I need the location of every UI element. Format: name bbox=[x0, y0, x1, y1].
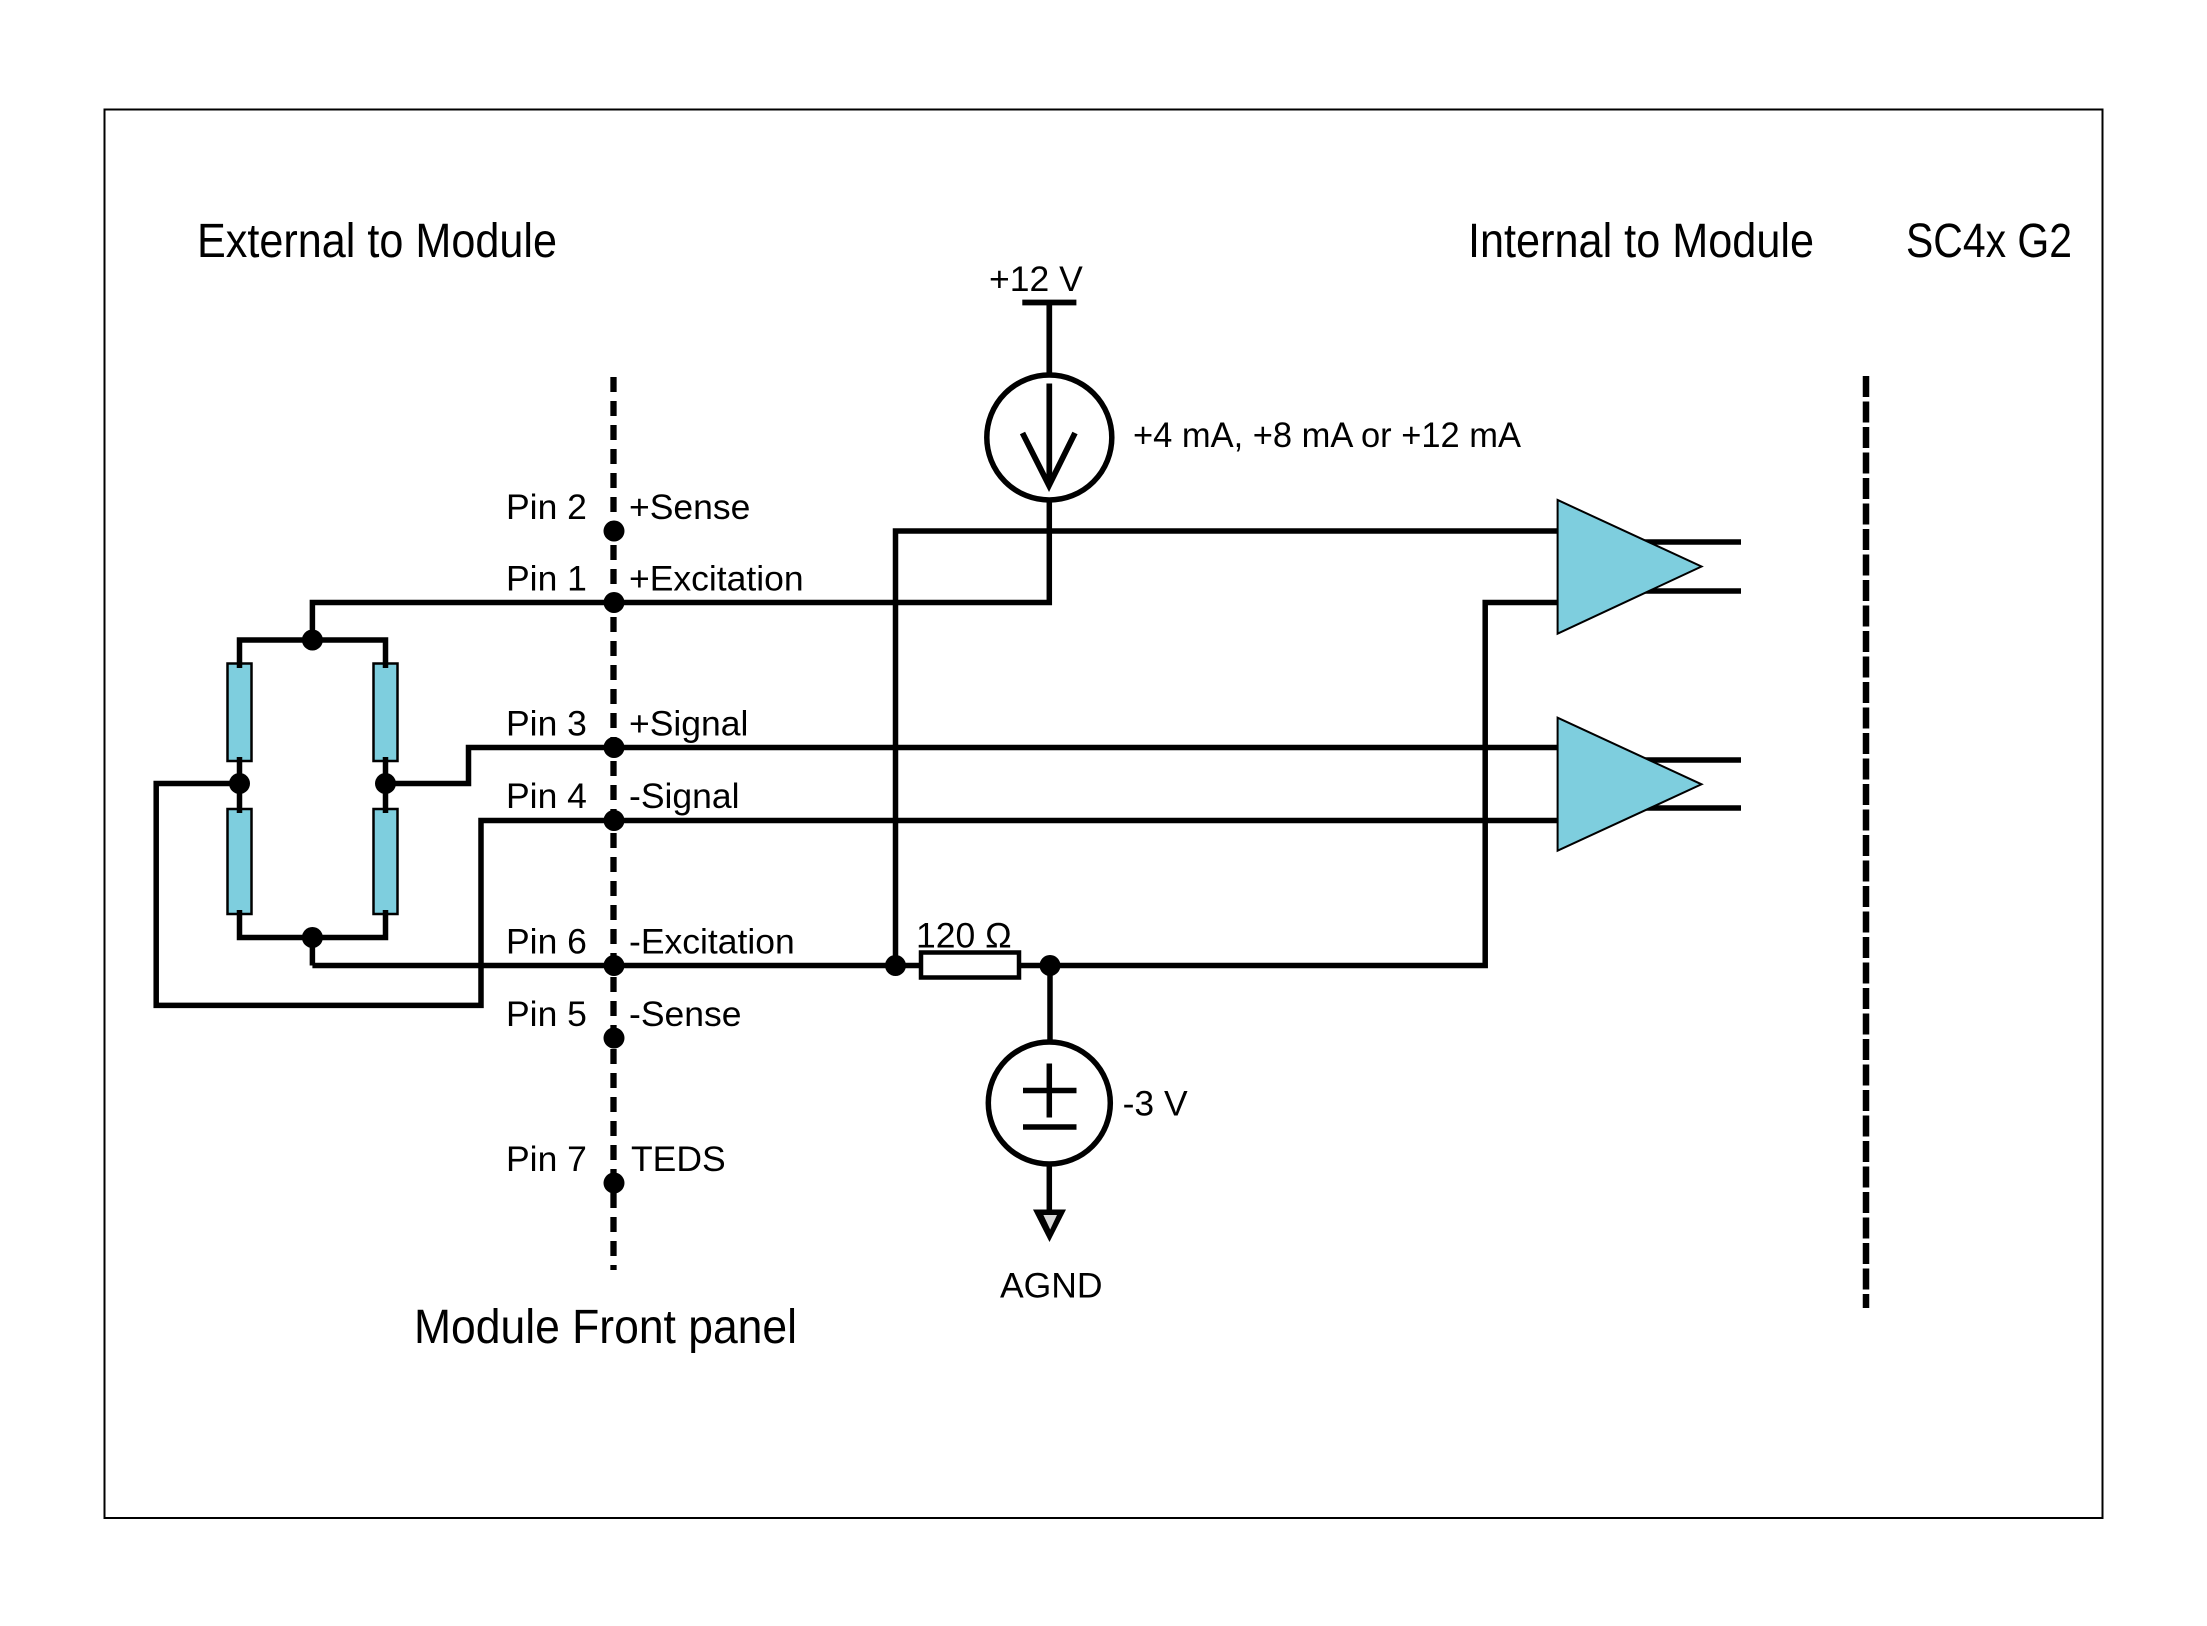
svg-text:Pin 1: Pin 1 bbox=[506, 559, 587, 599]
svg-text:120 Ω: 120 Ω bbox=[916, 915, 1012, 955]
svg-text:+Signal: +Signal bbox=[629, 704, 748, 744]
svg-text:TEDS: TEDS bbox=[631, 1139, 726, 1179]
svg-text:Pin 4: Pin 4 bbox=[506, 776, 587, 816]
svg-text:-3 V: -3 V bbox=[1123, 1084, 1188, 1124]
svg-text:Pin 2: Pin 2 bbox=[506, 487, 587, 527]
svg-text:-Signal: -Signal bbox=[629, 776, 740, 816]
svg-text:+Sense: +Sense bbox=[629, 487, 750, 527]
svg-text:Pin 3: Pin 3 bbox=[506, 704, 587, 744]
svg-text:Internal to Module: Internal to Module bbox=[1468, 215, 1814, 268]
svg-text:AGND: AGND bbox=[1000, 1266, 1103, 1306]
svg-text:+4 mA, +8 mA or +12 mA: +4 mA, +8 mA or +12 mA bbox=[1133, 415, 1521, 455]
svg-text:SC4x G2: SC4x G2 bbox=[1906, 215, 2072, 268]
svg-text:+12 V: +12 V bbox=[989, 259, 1083, 299]
svg-text:Pin 5: Pin 5 bbox=[506, 994, 587, 1034]
svg-text:-Excitation: -Excitation bbox=[629, 922, 795, 962]
svg-text:+Excitation: +Excitation bbox=[629, 559, 804, 599]
svg-text:Pin 7: Pin 7 bbox=[506, 1139, 587, 1179]
svg-text:External to Module: External to Module bbox=[197, 215, 557, 268]
svg-text:-Sense: -Sense bbox=[629, 994, 741, 1034]
svg-text:Pin 6: Pin 6 bbox=[506, 922, 587, 962]
svg-text:Module Front panel: Module Front panel bbox=[414, 1301, 797, 1354]
